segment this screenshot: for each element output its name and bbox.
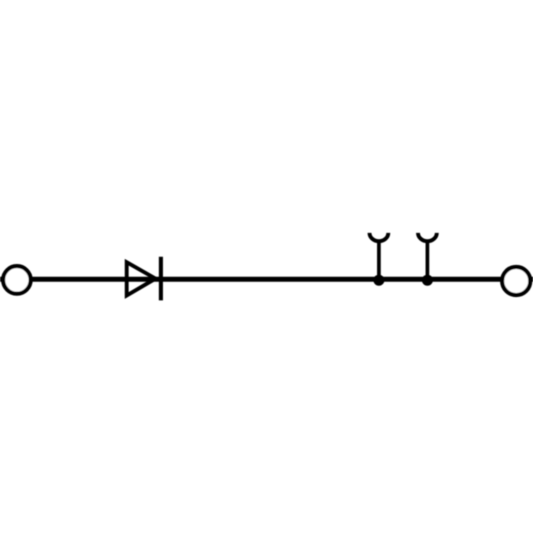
cross-connection stem 2 [426,241,430,281]
terminal circle right [502,267,530,295]
junction dot 1 [373,275,384,286]
junction dot 2 [422,275,433,286]
cross-connection fork 1 [370,233,389,241]
cross-connection fork 2 [418,233,437,241]
terminal circle left [3,266,31,294]
diode D1 triangle (anode) [127,262,156,295]
cross-connection stem 1 [377,241,381,281]
diode D1 cathode bar [159,257,163,301]
wire [0,277,533,282]
